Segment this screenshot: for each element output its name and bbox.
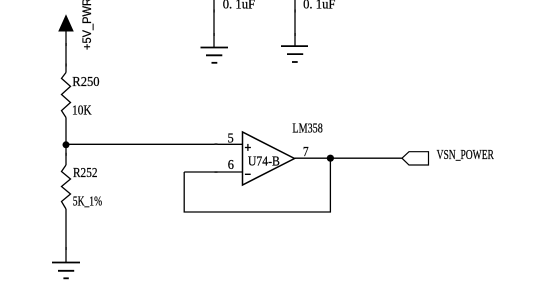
svg-text:5K_1%: 5K_1%: [73, 195, 103, 210]
svg-text:0. 1uF: 0. 1uF: [223, 0, 256, 13]
svg-text:0. 1uF: 0. 1uF: [303, 0, 336, 13]
svg-text:U74-B: U74-B: [248, 155, 280, 170]
svg-text:LM358: LM358: [292, 121, 322, 136]
svg-text:7: 7: [303, 145, 309, 160]
svg-text:10K: 10K: [72, 104, 92, 119]
svg-text:VSN_POWER: VSN_POWER: [437, 148, 495, 163]
svg-text:+5V_PWR: +5V_PWR: [80, 0, 94, 50]
svg-text:6: 6: [228, 158, 234, 173]
svg-text:R252: R252: [73, 166, 98, 181]
svg-text:5: 5: [228, 131, 234, 146]
svg-text:R250: R250: [72, 75, 99, 90]
